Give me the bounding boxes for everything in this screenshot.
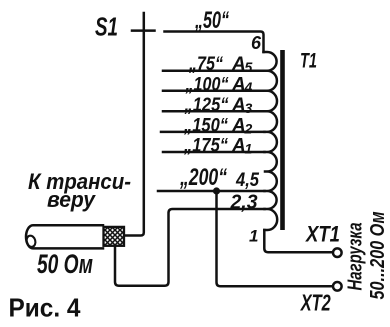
svg-text:Нагрузка: Нагрузка xyxy=(345,223,367,291)
wire: switch contact "200" tap (pins 4,5) xyxy=(158,190,265,193)
junction on "200" tap xyxy=(213,187,220,194)
wire: transformer pins 2,3 down to coax shield xyxy=(115,209,265,286)
svg-text:1: 1 xyxy=(249,226,258,245)
wire: switch contact "50" to transformer pin 6 xyxy=(165,32,264,53)
svg-text:4: 4 xyxy=(244,79,253,95)
svg-text:„200“: „200“ xyxy=(179,164,227,191)
svg-text:50 Ом: 50 Ом xyxy=(37,249,93,279)
svg-text:веру: веру xyxy=(47,187,97,212)
svg-text:„175“: „175“ xyxy=(183,136,228,157)
svg-text:2: 2 xyxy=(244,120,253,136)
wire: switch contact "75" tap A5 xyxy=(163,69,265,72)
svg-text:2,3: 2,3 xyxy=(230,192,258,214)
svg-text:„100“: „100“ xyxy=(185,74,229,95)
wire: switch contact "125" tap A3 xyxy=(163,110,265,113)
svg-text:5: 5 xyxy=(245,59,253,75)
svg-text:4,5: 4,5 xyxy=(235,169,260,191)
coaxial cable body xyxy=(26,225,103,248)
coaxial cable end ellipse xyxy=(25,235,36,248)
svg-text:XT1: XT1 xyxy=(304,222,340,247)
svg-text:„125“: „125“ xyxy=(184,95,229,116)
svg-text:„75“: „75“ xyxy=(188,54,223,75)
terminal XT2 xyxy=(333,282,342,291)
svg-text:6: 6 xyxy=(251,33,262,53)
wire: switch contact "100" tap A4 xyxy=(163,90,265,93)
transformer T1 core xyxy=(280,50,285,230)
wire: switch contact "150" tap A2 xyxy=(161,131,265,134)
svg-text:3: 3 xyxy=(245,100,253,116)
wire: switch S1 common bus to coax centre conductor xyxy=(123,13,144,236)
svg-text:„150“: „150“ xyxy=(183,116,228,137)
svg-text:T1: T1 xyxy=(300,50,317,73)
terminal XT1 xyxy=(333,248,342,257)
switch S1 wiper contact tick xyxy=(132,29,155,32)
svg-text:„50“: „50“ xyxy=(194,7,229,34)
transformer T1 winding loops xyxy=(264,52,278,230)
wire: transformer pin 1 to terminal XT1 xyxy=(264,230,332,252)
svg-text:Рис. 4: Рис. 4 xyxy=(9,293,81,323)
wire: "200" tap junction down and right to terminal XT2 xyxy=(217,191,333,286)
wire: switch contact "175" tap A1 xyxy=(163,151,265,154)
svg-text:S1: S1 xyxy=(95,12,118,42)
coaxial cable braid termination xyxy=(104,227,125,246)
svg-text:50...200 Ом: 50...200 Ом xyxy=(367,211,389,299)
svg-text:1: 1 xyxy=(245,140,253,156)
svg-text:XT2: XT2 xyxy=(299,290,331,316)
